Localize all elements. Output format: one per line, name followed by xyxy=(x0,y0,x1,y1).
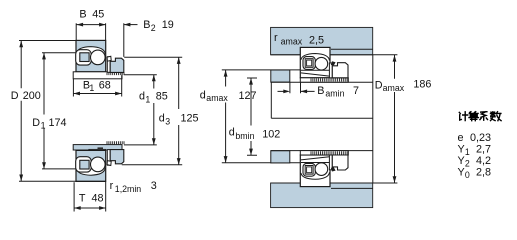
cage upper xyxy=(80,53,89,62)
ball pocket upper mounted left xyxy=(303,57,315,70)
svg-text:B: B xyxy=(143,19,150,31)
svg-text:1: 1 xyxy=(41,121,46,131)
shaft shoulder upper xyxy=(271,70,290,82)
shaft axis / half-section line xyxy=(271,117,373,119)
dimension T: extension lines xyxy=(74,182,106,212)
svg-text:2: 2 xyxy=(151,23,156,33)
svg-text:T: T xyxy=(79,193,86,205)
thread hatch mounted lower xyxy=(311,151,347,154)
dimension B1: line xyxy=(73,93,121,95)
washer tang upper xyxy=(107,56,111,61)
sleeve mounted lower (white band) xyxy=(300,151,348,155)
outer ring upper (mounted) xyxy=(300,47,330,77)
lock nut upper xyxy=(110,58,124,72)
inner ring line lower mounted xyxy=(301,162,330,164)
outer ring lower (mounted) xyxy=(300,155,330,187)
lock nut lower xyxy=(110,150,124,164)
svg-text:48: 48 xyxy=(92,193,104,205)
svg-text:bmin: bmin xyxy=(235,131,254,141)
svg-text:186: 186 xyxy=(413,79,431,91)
ball pocket lower mounted left xyxy=(303,163,315,176)
ball upper right xyxy=(91,50,106,65)
cage inner line lower mounted xyxy=(307,167,312,173)
raceway upper (white lens fill) xyxy=(77,47,105,58)
nut mounted lower xyxy=(332,155,348,170)
dimension D1: extension lines xyxy=(42,53,76,169)
svg-text:1: 1 xyxy=(89,83,94,93)
ball lower right xyxy=(91,157,106,172)
dimension d1: extension lines xyxy=(124,75,157,145)
raceway arc upper xyxy=(77,47,106,54)
adapter sleeve upper (white band) xyxy=(73,72,122,79)
svg-text:d: d xyxy=(139,91,145,103)
outer ring lower section xyxy=(76,150,106,181)
svg-text:125: 125 xyxy=(181,113,199,125)
raceway arc upper mounted xyxy=(301,54,330,61)
svg-text:2,7: 2,7 xyxy=(476,143,491,155)
housing block bottom xyxy=(271,183,373,208)
lock washer lower xyxy=(107,150,110,166)
sleeve mounted upper (white band) xyxy=(300,78,348,82)
lower section: thread hatch xyxy=(107,141,124,144)
svg-text:d: d xyxy=(229,127,235,139)
svg-text:174: 174 xyxy=(49,117,67,129)
svg-text:r: r xyxy=(110,180,114,192)
svg-text:3: 3 xyxy=(151,180,157,192)
dimension Bamin: extension lines xyxy=(290,83,301,94)
dimension T: line xyxy=(74,207,106,209)
svg-text:D: D xyxy=(32,117,40,129)
svg-text:45: 45 xyxy=(92,9,104,21)
shaft end vertical xyxy=(270,82,272,118)
sleeve step lower xyxy=(89,149,106,152)
svg-text:1: 1 xyxy=(465,147,470,157)
svg-text:D: D xyxy=(375,80,383,92)
inner ring line upper mounted xyxy=(301,69,330,71)
ball pocket lower left xyxy=(76,157,92,172)
calculation factors header 计算系数 (drawn strokes) xyxy=(459,112,501,121)
housing right edge xyxy=(372,55,374,183)
sleeve taper line lower mounted xyxy=(301,157,330,160)
dimension B: line xyxy=(77,24,106,26)
svg-text:0,23: 0,23 xyxy=(470,132,491,144)
dimension dbmin: vertical line xyxy=(250,78,252,155)
svg-text:68: 68 xyxy=(99,79,111,91)
dimension dbmin: extension lines xyxy=(247,78,257,155)
dimension d1: vertical line xyxy=(153,75,155,145)
dimension Bamin: arrows xyxy=(278,90,315,92)
housing block top xyxy=(271,27,373,54)
svg-text:102: 102 xyxy=(262,129,280,141)
adapter sleeve lower (shaded, external view) xyxy=(73,145,122,150)
svg-text:D: D xyxy=(11,90,19,102)
dimension d3: vertical line xyxy=(178,57,180,164)
cage lower xyxy=(80,160,89,169)
dimension D1: vertical line xyxy=(43,53,45,169)
dimension B: arrows xyxy=(77,23,84,27)
svg-text:2,5: 2,5 xyxy=(309,34,324,46)
svg-text:amax: amax xyxy=(206,93,228,103)
washer mounted lower xyxy=(329,155,332,170)
dimension damax: vertical line xyxy=(225,70,227,163)
svg-text:amin: amin xyxy=(325,89,344,99)
dimension B2: arrow and leader xyxy=(124,24,138,26)
housing bore lines + Damax extensions xyxy=(271,55,398,183)
svg-text:Y: Y xyxy=(458,166,465,178)
svg-text:2,8: 2,8 xyxy=(476,166,491,178)
svg-text:Y: Y xyxy=(458,143,465,155)
sleeve taper line upper mounted xyxy=(301,73,330,76)
svg-text:19: 19 xyxy=(162,19,174,31)
svg-text:4,2: 4,2 xyxy=(476,155,491,167)
ball mounted lower right xyxy=(315,163,328,176)
svg-text:2: 2 xyxy=(465,159,470,169)
sleeve slit xyxy=(98,147,104,149)
dimension damax: extension lines xyxy=(222,70,300,163)
svg-text:0: 0 xyxy=(465,170,470,180)
dimension D: vertical line xyxy=(20,41,22,181)
svg-text:B: B xyxy=(79,9,86,21)
washer tang mounted upper xyxy=(331,61,336,65)
dimension d3: extension lines xyxy=(122,57,182,164)
svg-text:e: e xyxy=(458,132,464,144)
bearing top edge + D extension xyxy=(19,40,106,42)
dimension B: extension lines xyxy=(76,23,124,57)
outer ring upper section xyxy=(76,40,106,71)
dimension Damax: vertical line xyxy=(394,55,396,183)
nut mounted upper xyxy=(332,63,348,78)
ball mounted upper right xyxy=(315,57,328,70)
thread hatch mounted upper xyxy=(311,78,347,81)
svg-text:d: d xyxy=(200,89,206,101)
svg-text:d: d xyxy=(159,113,165,125)
raceway arc lower mounted xyxy=(301,172,330,179)
svg-text:127: 127 xyxy=(239,90,257,102)
cage mounted lower (white box) xyxy=(305,166,313,175)
svg-text:85: 85 xyxy=(156,91,168,103)
washer tang lower xyxy=(107,161,111,166)
bearing bottom edge + D extension xyxy=(19,180,106,182)
svg-text:3: 3 xyxy=(165,117,170,127)
lock washer upper xyxy=(107,57,110,73)
svg-text:r: r xyxy=(274,32,278,44)
cage mounted upper (white box) xyxy=(305,59,313,68)
svg-text:1: 1 xyxy=(145,95,150,105)
svg-text:7: 7 xyxy=(353,85,359,97)
raceway lower (white lens fill) xyxy=(77,164,105,175)
raceway arc lower xyxy=(77,168,106,175)
dimension B1: extension lines xyxy=(73,75,121,96)
svg-text:1,2min: 1,2min xyxy=(115,184,142,194)
washer mounted upper xyxy=(329,63,332,78)
shaft surface lines xyxy=(271,82,373,150)
svg-text:amax: amax xyxy=(383,83,405,93)
housing shoulder lines xyxy=(331,49,373,188)
thread hatch upper xyxy=(107,72,124,75)
shaft shoulder lower xyxy=(271,151,290,163)
ball pocket upper left xyxy=(76,50,92,65)
svg-text:200: 200 xyxy=(23,90,41,102)
cage inner line upper mounted xyxy=(307,60,312,66)
svg-text:B: B xyxy=(317,85,324,97)
washer tang mounted lower xyxy=(331,167,336,171)
svg-text:amax: amax xyxy=(281,36,303,46)
svg-text:Y: Y xyxy=(458,155,465,167)
